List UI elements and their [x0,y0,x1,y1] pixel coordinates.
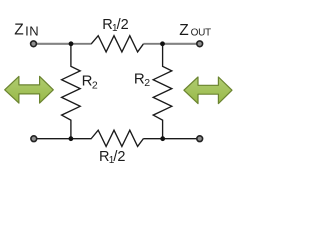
terminal bottom-left [31,136,37,142]
resistor R1/2 bottom (zigzag) [91,130,143,146]
right impedance arrow (green double-headed) [184,77,232,104]
resistor R2 left (vertical, node A to node C) [62,44,81,139]
svg-text:2: 2 [144,77,150,89]
svg-text:OUT: OUT [191,28,211,39]
node D (junction dot bottom-right) [160,136,165,141]
label R2 right [134,70,150,89]
svg-text:Z: Z [179,22,188,39]
wire resistor R1/2 top to node B [144,43,163,45]
wire top-left (Z_IN terminal to node A) [34,43,72,45]
node A (junction dot top-left) [69,41,74,46]
terminal bottom-right [197,136,203,142]
left impedance arrow (green double-headed) [5,76,54,103]
wire node D to bottom-right terminal [163,138,200,140]
terminal Z_IN (top-left) [31,41,37,47]
label R1/2 bottom [99,149,125,166]
resistor R2 right (vertical, node B to node D) [153,44,172,139]
svg-text:IN: IN [25,24,39,39]
svg-text:/2: /2 [113,149,125,165]
wire node A to resistor R1/2 top [71,43,92,45]
terminal Z_OUT (top-right) [197,41,203,47]
wire node B to Z_OUT terminal [163,43,200,45]
svg-text:Z: Z [14,21,23,38]
label Z_IN [14,21,39,38]
wire node C to resistor R1/2 bottom [71,138,92,140]
label Z_OUT [179,22,211,39]
node B (junction dot top-right) [160,41,165,46]
label R2 left [82,72,98,91]
node C (junction dot bottom-left) [69,136,74,141]
label R1/2 top [102,17,128,34]
resistor R1/2 top (zigzag) [91,36,143,52]
wire resistor R1/2 bottom to node D [144,138,163,140]
svg-text:2: 2 [92,79,98,91]
svg-text:/2: /2 [117,17,129,33]
wire bottom-left (terminal to node C) [34,138,71,140]
